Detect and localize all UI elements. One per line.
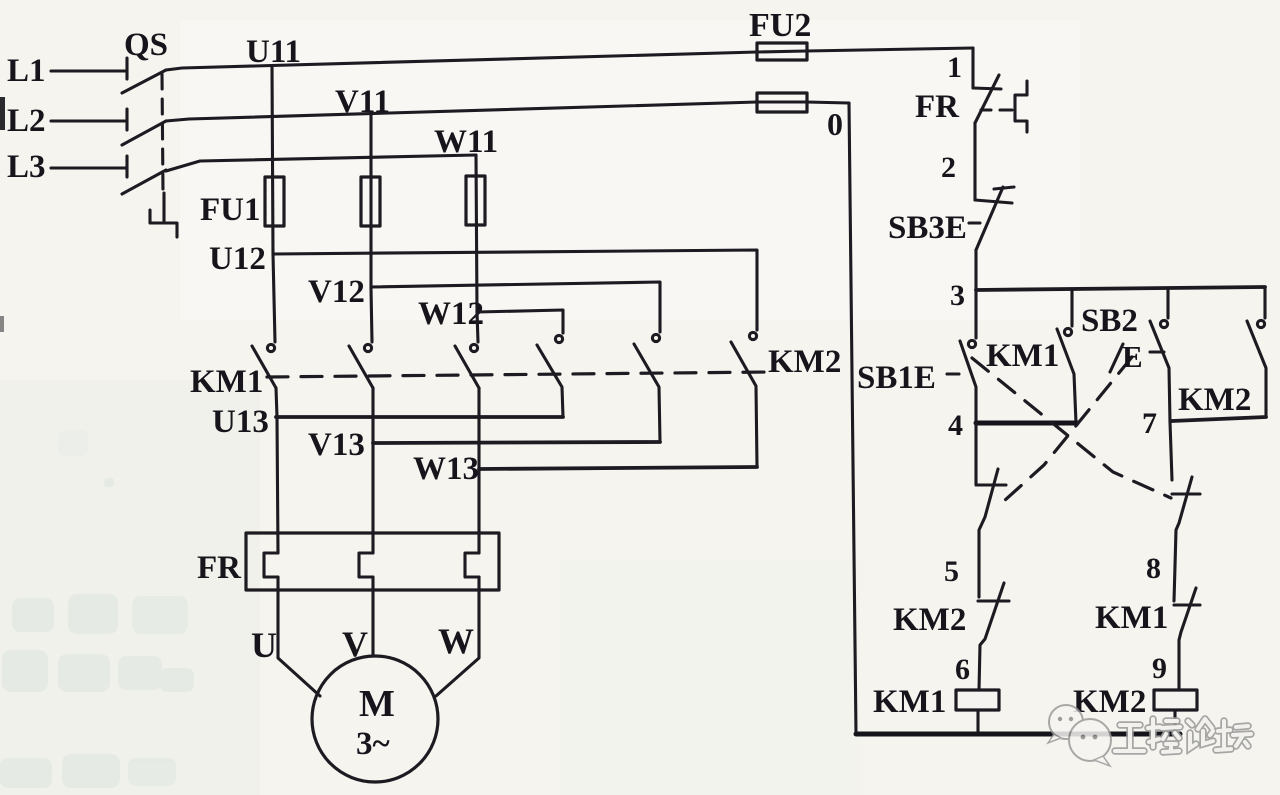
wire node1 drop [971, 48, 974, 88]
svg-text:W: W [438, 621, 474, 661]
svg-text:W11: W11 [434, 124, 498, 160]
svg-text:U13: U13 [212, 404, 269, 440]
FR heater element W [465, 553, 479, 577]
wire KM1 coil to rail [976, 710, 979, 734]
wire U12 to KM2 right pole [273, 250, 757, 330]
svg-text:9: 9 [1152, 652, 1167, 685]
thermal overload relay FR box [246, 533, 499, 590]
QS fixed contact tick L3 [125, 156, 128, 177]
svg-text:5: 5 [944, 555, 959, 588]
svg-text:U11: U11 [246, 34, 301, 70]
disconnect switch QS blade pole3 [122, 170, 166, 194]
wire bottom rail [856, 732, 1180, 737]
watermark wechat icon [1048, 705, 1111, 766]
SB2 actuator E symbol [1110, 339, 1164, 374]
svg-text:2: 2 [941, 151, 956, 184]
contactor KM1 NC interlock contact [1174, 566, 1200, 690]
svg-text:L1: L1 [7, 53, 46, 89]
fuse FU2 lower [757, 93, 807, 112]
svg-text:L3: L3 [7, 149, 46, 185]
QS fixed contact tick L2 [125, 109, 128, 130]
svg-text:FR: FR [197, 550, 242, 586]
scan edge mark left [0, 97, 5, 332]
contactor KM1 main pole U [252, 254, 276, 388]
svg-text:KM2: KM2 [1178, 382, 1251, 418]
svg-text:SB3E: SB3E [888, 210, 967, 246]
svg-text:E: E [1122, 339, 1143, 374]
contactor KM2 main pole middle [634, 334, 660, 442]
svg-text:3: 3 [950, 279, 965, 312]
svg-text:KM1: KM1 [986, 338, 1059, 374]
svg-text:KM1: KM1 [1095, 600, 1168, 636]
wire node2 drop [973, 123, 976, 200]
svg-text:6: 6 [955, 653, 970, 686]
FR heater element U [264, 553, 278, 577]
thermal relay FR NC contact [973, 75, 1001, 123]
wire phase W drop to FR [477, 388, 480, 553]
contactor coil KM1 [956, 690, 999, 710]
QS gang linkage dashed [162, 74, 163, 192]
svg-text:V12: V12 [308, 274, 365, 310]
node V11 wire down [369, 113, 372, 288]
faint scan ghosts bottom-left [0, 430, 194, 788]
SB3 actuator dash [969, 221, 980, 224]
svg-text:KM1: KM1 [190, 364, 263, 400]
fuse FU1 pole U [265, 177, 284, 226]
svg-text:U: U [251, 625, 277, 665]
FR trip device symbol [1015, 81, 1027, 132]
wire L1 lead [51, 69, 126, 72]
wire phase U drop to FR [276, 388, 278, 553]
SB1 actuator dash [947, 372, 959, 375]
svg-text:SB1E: SB1E [857, 360, 936, 396]
wire phase A top line [166, 48, 973, 70]
contactor KM2 aux NO self-hold [1247, 288, 1266, 417]
watermark text gongkong luntan [1115, 719, 1251, 752]
fuse FU1 pole W [466, 176, 485, 225]
svg-text:4: 4 [948, 409, 963, 442]
svg-text:0: 0 [827, 106, 843, 142]
node W11 wire down [476, 155, 477, 312]
pushbutton SB1 NO (forward start) [960, 290, 976, 423]
contactor KM2 main pole left [537, 335, 563, 417]
wire phase B second line [166, 102, 849, 121]
contactor coil KM2 [1154, 690, 1197, 710]
QS fixed contact tick L1 [125, 58, 128, 79]
wire phase C third line [166, 155, 476, 171]
svg-text:KM1: KM1 [873, 684, 946, 720]
FR trip linkage dashes [981, 108, 1012, 111]
mechanical linkage dashed KM1-KM2 [267, 372, 770, 377]
svg-text:W13: W13 [413, 451, 479, 487]
svg-text:KM2: KM2 [768, 344, 841, 380]
svg-text:1: 1 [947, 51, 962, 84]
wire phase V drop to FR [371, 388, 374, 553]
wire node7 horizontal [1172, 417, 1266, 421]
fuse FU2 upper [757, 43, 807, 60]
contactor KM2 NC interlock contact [978, 566, 1009, 690]
disconnect switch QS blade pole1 [122, 70, 166, 93]
svg-text:FR: FR [915, 89, 960, 125]
wire W13 [479, 467, 757, 469]
pushbutton SB2 NC half (interlock in KM1 branch) [976, 423, 1006, 566]
wire node3 drop [974, 250, 977, 290]
wire L2 lead [51, 119, 126, 122]
svg-text:8: 8 [1146, 552, 1161, 585]
wire U13 [276, 415, 563, 419]
contactor KM1 main pole V [349, 288, 373, 388]
wire KM2 coil to rail [1173, 710, 1176, 734]
wire node4 horizontal [976, 421, 1077, 426]
svg-text:FU2: FU2 [749, 7, 811, 44]
contactor KM1 aux NO self-hold [1057, 289, 1076, 423]
motor M circle [312, 656, 438, 782]
svg-text:SB2: SB2 [1081, 303, 1138, 339]
disconnect switch QS blade pole2 [122, 121, 166, 145]
contactor KM2 main pole right [731, 332, 757, 467]
wire V13 [373, 442, 660, 443]
mechanical link dashed SB2 to its NC half [1004, 357, 1132, 501]
pushbutton SB1 NC half (interlock in KM2 branch) [1170, 422, 1200, 566]
mechanical link dashed SB1 to its NC half [972, 358, 1171, 498]
svg-text:V11: V11 [335, 84, 390, 120]
svg-text:M: M [359, 683, 395, 725]
svg-text:QS: QS [124, 27, 168, 63]
wire L3 lead [51, 166, 126, 169]
FR heater element V [359, 553, 373, 577]
svg-text:7: 7 [1142, 407, 1157, 440]
QS operating handle [150, 193, 177, 237]
wire node3 horizontal [976, 287, 1265, 290]
svg-text:W12: W12 [418, 296, 484, 332]
wire W12 to KM2 left pole [477, 310, 563, 333]
svg-text:KM2: KM2 [893, 602, 966, 638]
fuse FU1 pole V [361, 177, 380, 226]
wire W to motor [436, 577, 479, 696]
wire V to motor [371, 577, 374, 656]
svg-text:L2: L2 [7, 103, 46, 139]
svg-text:U12: U12 [209, 241, 266, 277]
wire 0 rail vertical [849, 103, 856, 734]
node U11 wire down [272, 66, 273, 254]
pushbutton SB2 NO (reverse start) [1150, 288, 1170, 422]
pushbutton SB3 NC (stop) [975, 187, 1014, 250]
svg-text:KM2: KM2 [1073, 684, 1146, 720]
svg-text:3~: 3~ [356, 726, 390, 762]
wire V12 to KM2 middle pole [371, 282, 660, 332]
svg-text:FU1: FU1 [200, 192, 261, 228]
wire U to motor [278, 577, 320, 696]
contactor KM1 main pole W [455, 312, 479, 388]
svg-text:V13: V13 [308, 427, 365, 463]
